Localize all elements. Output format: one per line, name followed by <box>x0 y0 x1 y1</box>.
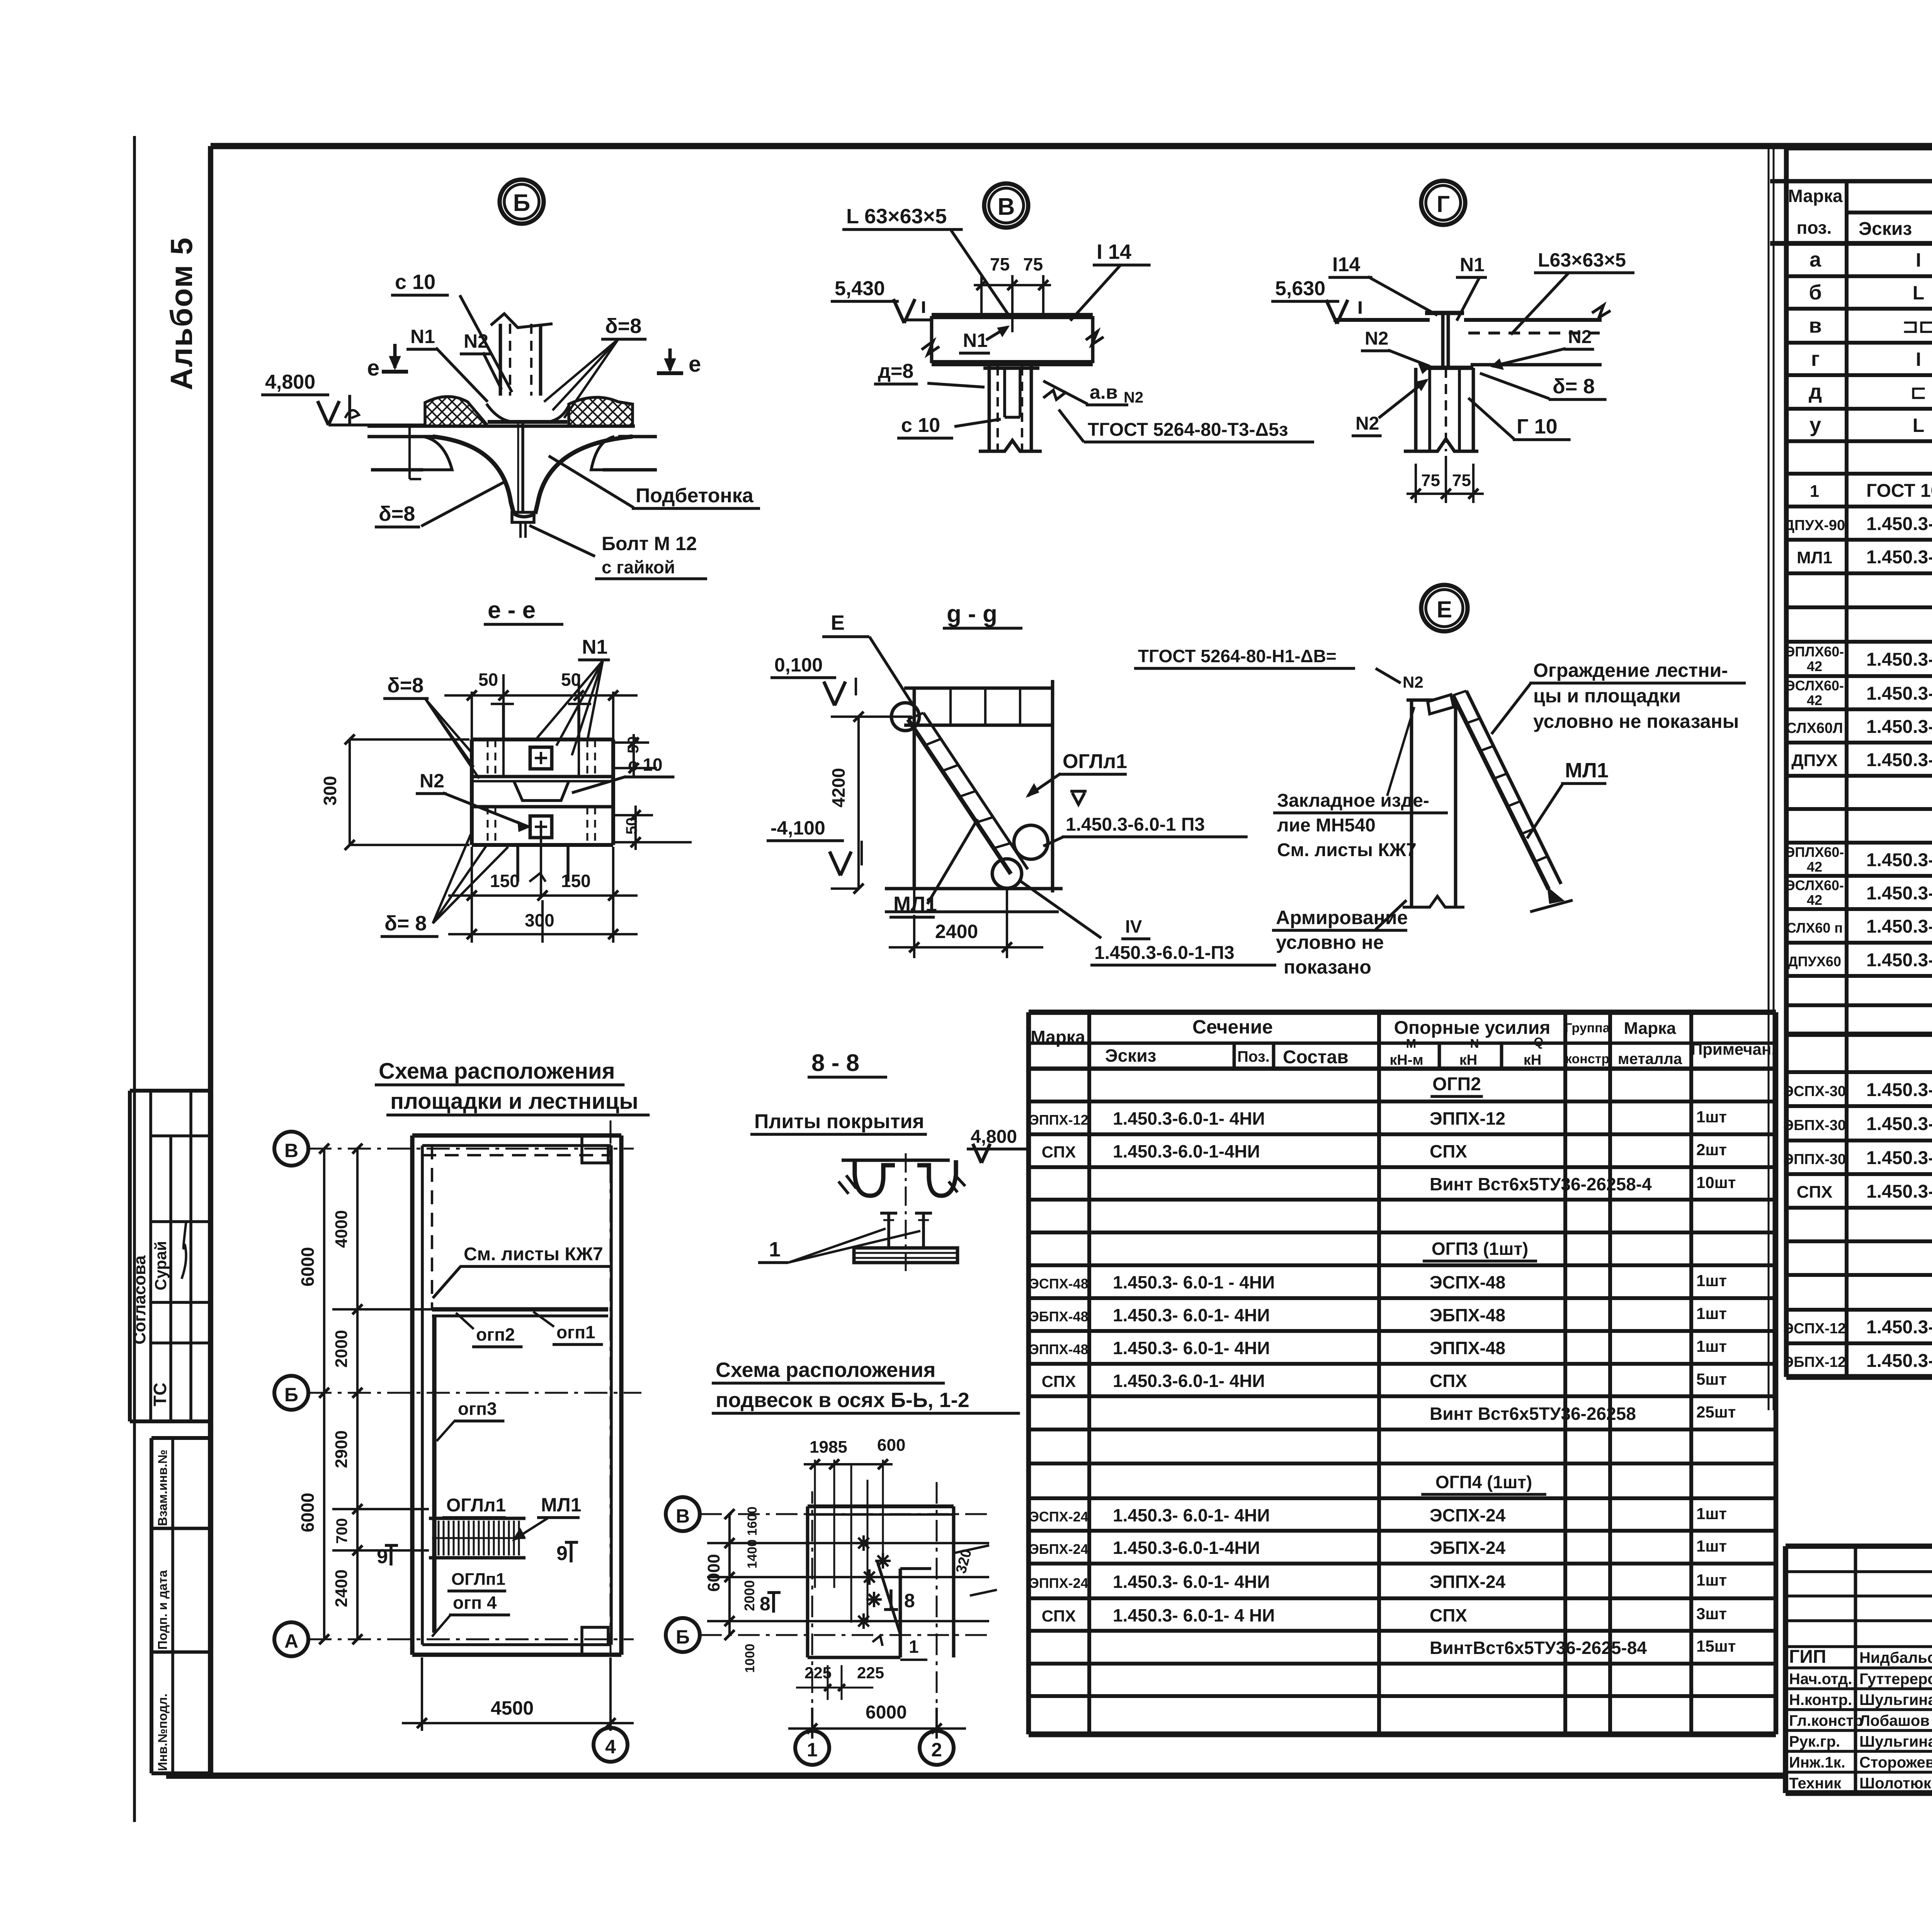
svg-text:2000: 2000 <box>742 1580 757 1611</box>
svg-text:огп 4: огп 4 <box>453 1593 497 1613</box>
plan1 top-right notch <box>582 1135 608 1163</box>
svg-text:2400: 2400 <box>332 1569 351 1607</box>
svg-text:1.450.3-6.0-1- 2 НИ: 1.450.3-6.0-1- 2 НИ <box>1866 683 1932 704</box>
svg-text:1.450.3- 6.0-1- 4НИ: 1.450.3- 6.0-1- 4НИ <box>1866 950 1932 971</box>
svg-text:Инв.№подл.: Инв.№подл. <box>155 1693 170 1771</box>
svg-text:42: 42 <box>1807 859 1822 875</box>
svg-text:поз.: поз. <box>1797 218 1832 238</box>
detail V: column below <box>988 366 991 451</box>
section e-e: bottom column stub <box>516 845 519 882</box>
svg-text:ДПУХ: ДПУХ <box>1791 751 1838 770</box>
svg-text:с 10: с 10 <box>395 270 435 294</box>
svg-text:3шт: 3шт <box>1696 1605 1727 1623</box>
svg-text:ЭСЛХ60-: ЭСЛХ60- <box>1785 678 1844 693</box>
svg-text:лие МН540: лие МН540 <box>1277 815 1376 836</box>
svg-text:МЛ1: МЛ1 <box>1565 759 1609 782</box>
detail V: weld mark <box>1043 390 1066 399</box>
svg-text:огп1: огп1 <box>556 1322 595 1342</box>
svg-text:Опорные усилия: Опорные усилия <box>1394 1018 1551 1038</box>
svg-text:I14: I14 <box>1332 253 1360 276</box>
svg-text:75: 75 <box>1452 471 1471 490</box>
svg-text:условно не: условно не <box>1276 931 1384 953</box>
svg-text:ЭСПХ-12: ЭСПХ-12 <box>1783 1321 1846 1337</box>
svg-text:СПХ: СПХ <box>1430 1605 1467 1625</box>
svg-text:N1: N1 <box>410 326 435 347</box>
svg-text:ЭППХ-24: ЭППХ-24 <box>1029 1575 1088 1591</box>
svg-text:42: 42 <box>1807 658 1822 674</box>
svg-text:Марка: Марка <box>1624 1019 1676 1038</box>
detail V circle <box>984 184 1028 228</box>
plan1 building outline <box>412 1133 621 1137</box>
svg-text:1: 1 <box>1810 482 1819 501</box>
detail B circle <box>500 180 544 224</box>
svg-text:Гл.констр: Гл.констр <box>1789 1712 1863 1729</box>
svg-text:ЭСПХ-48: ЭСПХ-48 <box>1029 1276 1088 1292</box>
svg-text:1.450.3-6.0-1 П3: 1.450.3-6.0-1 П3 <box>1066 814 1205 835</box>
svg-text:Винт Вст6х5ТУ36-26258: Винт Вст6х5ТУ36-26258 <box>1430 1404 1636 1424</box>
svg-text:ЭСПХ-30: ЭСПХ-30 <box>1783 1083 1846 1100</box>
plan1 bottom dim 4500 <box>421 1657 423 1731</box>
break top <box>491 314 553 328</box>
svg-text:е - е: е - е <box>488 597 536 624</box>
detail B: bolt <box>521 422 524 512</box>
svg-text:Схема расположения: Схема расположения <box>716 1358 935 1382</box>
signature squiggle <box>182 1221 186 1279</box>
svg-text:150: 150 <box>490 871 520 891</box>
svg-text:ЭСЛХ60-: ЭСЛХ60- <box>1785 877 1844 893</box>
frame left <box>208 146 213 1776</box>
svg-text:ЭПЛХ60-: ЭПЛХ60- <box>1785 844 1844 860</box>
svg-text:N2: N2 <box>464 330 488 352</box>
svg-text:СПХ: СПХ <box>1042 1372 1076 1390</box>
svg-text:25шт: 25шт <box>1696 1403 1736 1421</box>
svg-text:МЛ1: МЛ1 <box>893 892 937 916</box>
svg-text:СПХ: СПХ <box>1042 1143 1076 1161</box>
svg-text:4200: 4200 <box>828 768 849 807</box>
section e-e: top stubs <box>502 704 505 739</box>
section e-e plate <box>472 738 613 741</box>
svg-text:N2: N2 <box>1403 673 1423 691</box>
svg-text:Подп. и дата: Подп. и дата <box>155 1570 170 1650</box>
svg-text:ЭППХ-30: ЭППХ-30 <box>1783 1151 1846 1168</box>
left stamp group 2 <box>151 1436 211 1440</box>
plan1 axis lines <box>308 1148 634 1150</box>
svg-text:у: у <box>1810 413 1821 437</box>
svg-text:Шульгина: Шульгина <box>1859 1691 1932 1708</box>
svg-text:Марка: Марка <box>1031 1027 1085 1047</box>
plan1 dim chains <box>323 1149 325 1639</box>
svg-text:4: 4 <box>605 1736 616 1758</box>
svg-text:42: 42 <box>1807 692 1822 708</box>
section e-e: bolts washers <box>530 747 552 769</box>
svg-text:условно не показаны: условно не показаны <box>1533 710 1739 732</box>
svg-text:1: 1 <box>769 1238 781 1261</box>
svg-text:2шт: 2шт <box>1696 1141 1727 1159</box>
svg-text:1.450.3-6.0-1-П3: 1.450.3-6.0-1-П3 <box>1094 943 1235 963</box>
svg-text:1.450.3- 6.0-1: 1.450.3- 6.0-1 <box>1866 750 1932 770</box>
svg-text:8: 8 <box>760 1593 770 1615</box>
svg-text:⊐⊏: ⊐⊏ <box>1902 315 1932 337</box>
svg-text:Нидбальский: Нидбальский <box>1859 1649 1932 1666</box>
svg-text:0,100: 0,100 <box>774 654 823 676</box>
svg-text:Болт М 12: Болт М 12 <box>602 533 697 554</box>
svg-text:ЭБПХ-24: ЭБПХ-24 <box>1430 1538 1505 1558</box>
break bottom <box>979 440 1042 451</box>
plan2 axis circles <box>666 1497 700 1531</box>
svg-text:1.450.3- 6.0-1- 4 НИ: 1.450.3- 6.0-1- 4 НИ <box>1113 1605 1275 1625</box>
section 8-8: top line <box>842 1159 950 1162</box>
svg-text:-4,100: -4,100 <box>770 817 825 839</box>
svg-text:1.450.3- 6.0-1- 4ИИ: 1.450.3- 6.0-1- 4ИИ <box>1866 1317 1932 1338</box>
svg-text:В: В <box>284 1140 298 1161</box>
svg-text:Б: Б <box>676 1626 690 1648</box>
svg-text:ТГОСТ 5264-80-Т3-Δ5з: ТГОСТ 5264-80-Т3-Δ5з <box>1088 420 1288 440</box>
svg-text:СЛХ60Л: СЛХ60Л <box>1786 720 1843 736</box>
section 8-8: center axis <box>905 1153 907 1271</box>
plan1 bottom-right notch <box>582 1627 608 1655</box>
svg-text:кН: кН <box>1459 1052 1477 1068</box>
svg-text:Лобашов: Лобашов <box>1859 1712 1930 1729</box>
svg-text:ТГОСТ 5264-80-Н1-ΔВ=: ТГОСТ 5264-80-Н1-ΔВ= <box>1138 646 1337 666</box>
svg-text:Взам.инв.№: Взам.инв.№ <box>155 1450 170 1526</box>
title block <box>1786 1543 1932 1549</box>
svg-text:СПХ: СПХ <box>1430 1371 1467 1391</box>
svg-text:Поз.: Поз. <box>1237 1048 1270 1065</box>
svg-text:г: г <box>1811 347 1820 371</box>
svg-text:ОГЛп1: ОГЛп1 <box>451 1570 505 1589</box>
svg-text:1.450.3- 6.0-1- 4НИ: 1.450.3- 6.0-1- 4НИ <box>1113 1305 1270 1325</box>
svg-text:1.450.3- 6.0-1- 4НИ: 1.450.3- 6.0-1- 4НИ <box>1113 1505 1270 1525</box>
svg-text:Эскиз: Эскиз <box>1859 219 1912 239</box>
svg-text:ЭППХ-48: ЭППХ-48 <box>1029 1341 1088 1357</box>
svg-text:1шт: 1шт <box>1696 1337 1727 1355</box>
svg-text:а: а <box>1810 248 1821 271</box>
svg-text:2000: 2000 <box>332 1330 351 1368</box>
svg-text:N1: N1 <box>963 330 988 351</box>
svg-text:подвесок в осях Б-Ь, 1-2: подвесок в осях Б-Ь, 1-2 <box>716 1389 969 1412</box>
svg-text:ОГП4 (1шт): ОГП4 (1шт) <box>1435 1472 1532 1492</box>
svg-text:металла: металла <box>1618 1050 1682 1067</box>
paper trim line left <box>133 136 136 1822</box>
svg-text:1шт: 1шт <box>1696 1571 1727 1589</box>
svg-text:5,630: 5,630 <box>1275 277 1325 300</box>
svg-text:ЭСПХ-24: ЭСПХ-24 <box>1029 1509 1088 1525</box>
svg-text:4,800: 4,800 <box>971 1127 1017 1147</box>
svg-text:1.450.3- 6.0-1 - 4НИ: 1.450.3- 6.0-1 - 4НИ <box>1113 1272 1275 1292</box>
svg-text:1.450.3- 6.0-1- 2 НИ: 1.450.3- 6.0-1- 2 НИ <box>1866 649 1932 670</box>
svg-text:Схема расположения: Схема расположения <box>379 1059 615 1084</box>
svg-text:δ=8: δ=8 <box>387 674 423 697</box>
svg-text:1шт: 1шт <box>1696 1504 1727 1523</box>
svg-text:2900: 2900 <box>332 1430 351 1468</box>
section 8-8: roof plate hooks <box>855 1160 895 1196</box>
svg-text:5шт: 5шт <box>1696 1370 1727 1388</box>
svg-text:ЭППХ-12: ЭППХ-12 <box>1430 1108 1505 1129</box>
svg-text:См. листы КЖ7: См. листы КЖ7 <box>464 1244 603 1265</box>
svg-text:Q: Q <box>1534 1035 1544 1049</box>
svg-text:Ограждение лестни-: Ограждение лестни- <box>1533 659 1728 681</box>
svg-text:В: В <box>998 194 1015 220</box>
svg-text:Б: Б <box>513 190 531 216</box>
detail V: beam <box>932 313 1093 319</box>
svg-text:1.450.3- 6.0-1- 5НИ: 1.450.3- 6.0-1- 5НИ <box>1866 514 1932 534</box>
svg-text:L63×63×5: L63×63×5 <box>1538 249 1626 271</box>
svg-text:кН-м: кН-м <box>1389 1052 1423 1068</box>
svg-text:δ= 8: δ= 8 <box>384 912 427 935</box>
svg-text:I: I <box>1916 249 1921 271</box>
svg-text:1.450.3-6.0-1- 4НИ: 1.450.3-6.0-1- 4НИ <box>1113 1371 1265 1391</box>
svg-text:1.450.3-6.0-1- 4НИ: 1.450.3-6.0-1- 4НИ <box>1866 850 1932 870</box>
svg-text:1000: 1000 <box>743 1644 757 1673</box>
svg-text:Сторожева: Сторожева <box>1859 1754 1932 1771</box>
svg-text:2: 2 <box>931 1739 942 1761</box>
svg-text:Рук.гр.: Рук.гр. <box>1789 1733 1840 1750</box>
svg-text:с гайкой: с гайкой <box>602 557 675 577</box>
svg-text:Состав: Состав <box>1283 1047 1349 1067</box>
svg-text:цы и площадки: цы и площадки <box>1533 685 1681 707</box>
detail E: wall <box>1410 700 1413 907</box>
svg-text:кН: кН <box>1524 1052 1541 1068</box>
svg-text:СПХ: СПХ <box>1797 1183 1833 1202</box>
frame bottom <box>166 1773 1786 1779</box>
svg-text:N2: N2 <box>420 770 444 792</box>
svg-text:Согласова: Согласова <box>130 1255 149 1344</box>
svg-text:I: I <box>1916 348 1921 370</box>
plan2 inner L wall <box>899 1569 902 1657</box>
svg-text:Сечение: Сечение <box>1192 1016 1273 1038</box>
svg-text:1.450.3- 6.0-1- 4 НИ: 1.450.3- 6.0-1- 4 НИ <box>1866 1114 1932 1134</box>
detail B: section mark e right <box>657 371 683 375</box>
section g-g: stair stringer <box>908 719 1011 874</box>
svg-text:Инж.1к.: Инж.1к. <box>1789 1754 1845 1771</box>
svg-text:СПХ: СПХ <box>1430 1141 1467 1161</box>
svg-text:ЭБПХ-48: ЭБПХ-48 <box>1029 1309 1088 1324</box>
svg-text:75: 75 <box>990 254 1010 274</box>
svg-text:ДПУХ60: ДПУХ60 <box>1788 954 1841 969</box>
svg-text:ЭБПХ-24: ЭБПХ-24 <box>1029 1541 1088 1557</box>
svg-text:δ=8: δ=8 <box>605 314 641 338</box>
svg-text:75: 75 <box>1421 471 1440 490</box>
svg-text:1шт: 1шт <box>1696 1537 1727 1555</box>
svg-text:СЛХ60 п: СЛХ60 п <box>1786 920 1843 936</box>
detail B: column above <box>499 324 502 396</box>
section 8-8: hangers <box>887 1213 890 1248</box>
svg-text:1.450.3- 6.0-1- 2НИ: 1.450.3- 6.0-1- 2НИ <box>1866 717 1932 737</box>
svg-text:Техник: Техник <box>1789 1775 1842 1792</box>
svg-text:ОГЛл1: ОГЛл1 <box>1063 750 1127 773</box>
section 8-8: bottom bar <box>854 1248 957 1263</box>
svg-text:д: д <box>1809 380 1822 403</box>
plan2 axis lines <box>700 1513 989 1515</box>
svg-text:1.450.3- 6.0-1 - 4 НИ: 1.450.3- 6.0-1 - 4 НИ <box>1866 1181 1932 1202</box>
svg-text:ЭСПХ-48: ЭСПХ-48 <box>1430 1272 1505 1292</box>
svg-text:1.450.3- 6.0-1- 4НИ: 1.450.3- 6.0-1- 4НИ <box>1866 1148 1932 1168</box>
svg-text:В: В <box>676 1505 690 1527</box>
svg-text:6000: 6000 <box>298 1493 318 1532</box>
section e-e: channel trough <box>514 781 569 801</box>
svg-text:б: б <box>1809 281 1821 304</box>
svg-text:Шолотюк: Шолотюк <box>1859 1775 1932 1792</box>
detail B: rib funnel below <box>433 437 514 514</box>
svg-text:1шт: 1шт <box>1696 1271 1727 1290</box>
detail E: ladder <box>1453 695 1549 889</box>
svg-text:1.450.3- 6.0-1- 4НИ: 1.450.3- 6.0-1- 4НИ <box>1866 1351 1932 1371</box>
svg-text:А: А <box>284 1630 298 1652</box>
svg-text:6000: 6000 <box>866 1702 907 1723</box>
svg-text:ЭБПХ-30: ЭБПХ-30 <box>1783 1117 1846 1134</box>
svg-text:ЭППХ-12: ЭППХ-12 <box>1029 1112 1088 1128</box>
svg-text:а.в: а.в <box>1090 381 1117 403</box>
svg-text:Подбетонка: Подбетонка <box>636 484 754 507</box>
svg-text:1.450.3-6.0-1- 4НИ: 1.450.3-6.0-1- 4НИ <box>1866 883 1932 904</box>
svg-text:Г: Г <box>1437 191 1450 217</box>
svg-text:ЭБПХ-48: ЭБПХ-48 <box>1430 1305 1505 1325</box>
svg-text:Группа: Группа <box>1565 1021 1610 1035</box>
svg-text:Шульгина: Шульгина <box>1859 1733 1932 1750</box>
section g-g: platform structure <box>913 688 916 889</box>
section e-e: column dashed lines <box>487 739 489 777</box>
svg-text:N1: N1 <box>1460 254 1485 275</box>
svg-text:констр: констр <box>1565 1052 1609 1066</box>
left stamp group 1 <box>130 1089 211 1093</box>
svg-text:ОГП2: ОГП2 <box>1432 1074 1481 1095</box>
plan1 dashed inner lines <box>431 1146 433 1309</box>
svg-text:1.450.3- 6.0-1- 4 НИ: 1.450.3- 6.0-1- 4 НИ <box>1866 1080 1932 1100</box>
detail B: left insulation block <box>425 396 486 426</box>
svg-text:См. листы КЖ7: См. листы КЖ7 <box>1277 840 1417 860</box>
svg-text:ОГП3 (1шт): ОГП3 (1шт) <box>1432 1239 1528 1259</box>
svg-text:8 - 8: 8 - 8 <box>811 1050 859 1076</box>
svg-text:N2: N2 <box>1365 328 1388 349</box>
plan2 left dims <box>728 1514 731 1635</box>
svg-text:д=8: д=8 <box>878 360 913 382</box>
svg-text:8: 8 <box>904 1590 915 1611</box>
plan1 stair hatch <box>429 1517 526 1520</box>
plan1 axis circles <box>274 1132 308 1166</box>
slope mark <box>345 410 359 418</box>
svg-text:L 63×63×5: L 63×63×5 <box>846 205 947 228</box>
svg-text:МЛ1: МЛ1 <box>541 1494 582 1516</box>
svg-text:1.450.3-6.0-1- 4НИ: 1.450.3-6.0-1- 4НИ <box>1113 1108 1265 1129</box>
section e-e: bottom dims <box>471 847 473 943</box>
detail G: column below <box>1414 368 1418 451</box>
svg-text:N2: N2 <box>1568 327 1592 347</box>
svg-text:ВинтВст6х5ТУ36-2625-84: ВинтВст6х5ТУ36-2625-84 <box>1430 1638 1647 1658</box>
svg-text:1шт: 1шт <box>1696 1304 1727 1322</box>
detail G: bottom dims 75 75 <box>1415 464 1417 503</box>
svg-text:6000: 6000 <box>298 1247 318 1287</box>
svg-text:Гуттерерский: Гуттерерский <box>1859 1671 1932 1688</box>
svg-text:1: 1 <box>909 1637 919 1657</box>
svg-text:ОГЛл1: ОГЛл1 <box>446 1495 506 1516</box>
break right <box>1086 331 1104 345</box>
detail E: top bracket <box>1428 695 1454 714</box>
svg-text:9: 9 <box>556 1542 568 1565</box>
svg-text:600: 600 <box>877 1436 905 1455</box>
fold crease line <box>1768 148 1770 1410</box>
svg-text:1.450.3- 6.0-1- 1НИ: 1.450.3- 6.0-1- 1НИ <box>1866 547 1932 568</box>
svg-text:⊏: ⊏ <box>1910 381 1927 403</box>
svg-text:N2: N2 <box>1355 413 1379 434</box>
plan1 ogp3 line <box>432 1316 436 1633</box>
svg-text:Б: Б <box>284 1384 298 1406</box>
big table vedomost elementov <box>1786 146 1932 151</box>
svg-text:ДПУХ-90: ДПУХ-90 <box>1784 517 1845 534</box>
svg-text:ЭППХ-48: ЭППХ-48 <box>1430 1338 1505 1358</box>
svg-text:Е: Е <box>1437 597 1452 622</box>
plan2 asterisks <box>856 1542 871 1544</box>
svg-text:Плиты покрытия: Плиты покрытия <box>754 1110 924 1133</box>
svg-text:е: е <box>367 355 379 381</box>
plan2 rect <box>808 1504 954 1508</box>
svg-text:42: 42 <box>1807 892 1822 908</box>
break left <box>922 341 939 354</box>
svg-text:L: L <box>1913 282 1925 304</box>
svg-text:L: L <box>1913 415 1925 436</box>
svg-text:1.450.3- 6.0-1- 4НИ: 1.450.3- 6.0-1- 4НИ <box>1113 1338 1270 1358</box>
svg-text:g - g: g - g <box>947 601 997 627</box>
svg-text:ГОСТ 16127-78: ГОСТ 16127-78 <box>1866 481 1932 501</box>
svg-text:300: 300 <box>525 910 554 930</box>
svg-text:15шт: 15шт <box>1696 1637 1736 1655</box>
svg-text:1600: 1600 <box>745 1506 760 1536</box>
svg-text:150: 150 <box>561 871 591 891</box>
svg-text:ЭПЛХ60-: ЭПЛХ60- <box>1785 644 1844 659</box>
svg-text:1: 1 <box>807 1739 818 1761</box>
svg-text:Закладное изде-: Закладное изде- <box>1277 790 1429 811</box>
svg-text:1.450.3-6.0-1-4НИ: 1.450.3-6.0-1-4НИ <box>1113 1538 1260 1558</box>
svg-text:6000: 6000 <box>704 1554 723 1592</box>
svg-text:ЭБПХ-12: ЭБПХ-12 <box>1783 1354 1846 1370</box>
svg-text:М: М <box>1406 1037 1417 1050</box>
svg-text:в: в <box>1809 314 1821 337</box>
svg-text:4,800: 4,800 <box>265 371 315 393</box>
plan1 platform edge <box>432 1307 608 1311</box>
svg-text:Марка: Марка <box>1788 186 1843 206</box>
svg-text:Н.контр.: Н.контр. <box>1789 1691 1852 1708</box>
svg-text:N: N <box>1470 1037 1479 1050</box>
svg-text:1шт: 1шт <box>1696 1108 1727 1126</box>
svg-text:225: 225 <box>857 1664 884 1682</box>
svg-text:МЛ1: МЛ1 <box>1797 548 1832 567</box>
svg-text:1985: 1985 <box>810 1438 847 1457</box>
svg-text:ЭСПХ-24: ЭСПХ-24 <box>1430 1505 1506 1525</box>
svg-text:Е: Е <box>831 611 845 634</box>
svg-text:N2: N2 <box>1124 389 1143 406</box>
svg-text:Альбом 5: Альбом 5 <box>164 237 199 390</box>
svg-text:4000: 4000 <box>332 1210 351 1248</box>
plan2 horizontal tie lines <box>707 1542 989 1544</box>
svg-text:700: 700 <box>333 1518 350 1544</box>
svg-text:N1: N1 <box>582 636 607 658</box>
svg-text:огп3: огп3 <box>458 1399 497 1419</box>
section g-g: V mark + 1.450 label <box>1072 793 1085 804</box>
svg-text:Винт Вст6х5ТУ36-26258-4: Винт Вст6х5ТУ36-26258-4 <box>1430 1174 1652 1194</box>
svg-text:ГИП: ГИП <box>1789 1647 1826 1667</box>
frame top <box>211 143 1932 149</box>
svg-text:2400: 2400 <box>935 921 978 942</box>
svg-text:ТС: ТС <box>150 1383 170 1406</box>
detail B: right insulation block <box>569 397 633 426</box>
svg-text:δ= 8: δ= 8 <box>1553 375 1595 398</box>
detail G: beam + floor <box>1425 311 1464 315</box>
svg-text:I 14: I 14 <box>1097 240 1131 263</box>
svg-text:1400: 1400 <box>745 1539 760 1569</box>
svg-text:1.450.3- 6.0-1- 4 НИ: 1.450.3- 6.0-1- 4 НИ <box>1866 916 1932 937</box>
svg-text:с 10: с 10 <box>901 414 940 437</box>
svg-text:площадки и лестницы: площадки и лестницы <box>390 1089 638 1114</box>
svg-text:Сурай: Сурай <box>151 1241 170 1290</box>
